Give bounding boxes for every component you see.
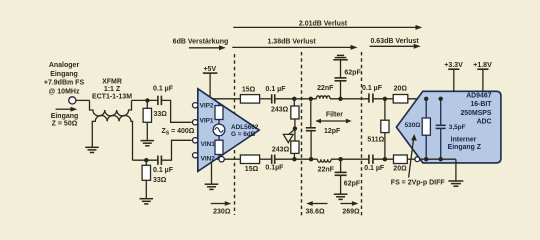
pin VIP1 [193, 120, 198, 125]
svg-text:Z = 50Ω: Z = 50Ω [52, 121, 78, 128]
svg-text:38.6Ω: 38.6Ω [305, 208, 325, 215]
annotation arrow 0.63dB Verlust [370, 38, 421, 49]
svg-text:0.1 µF: 0.1 µF [153, 167, 174, 174]
input terminal circle [69, 97, 76, 104]
node bottom branch junction [144, 158, 148, 162]
svg-text:22nF: 22nF [318, 166, 335, 173]
resistor R9 20 Ohm bottom [394, 155, 408, 164]
inductor L1 22nF top [316, 85, 334, 99]
node 243 top [292, 97, 296, 101]
wire C2 to VIN1 [161, 140, 191, 160]
label Interner Eingang Z [448, 136, 482, 151]
capacitor C8 0.1uF top right [362, 85, 383, 103]
svg-text:VIP1: VIP1 [200, 117, 214, 124]
capacitor C9 0.1uF bottom right [364, 155, 385, 173]
node 511 top [383, 97, 387, 101]
svg-text:VIN2: VIN2 [201, 156, 216, 163]
dashed boundary line 1 [234, 54, 236, 215]
capacitor C1 0.1uF top input [153, 85, 174, 105]
wire R1 to ground [146, 122, 148, 140]
wire R2 to ground [145, 180, 147, 198]
node 62pF bottom [338, 157, 342, 161]
svg-text:0.1 µF: 0.1 µF [266, 86, 287, 93]
wire U1 bottom output stub [216, 158, 219, 160]
inverted ground above C6 [333, 55, 348, 59]
wire stem to resistor R1 [146, 100, 148, 108]
transformer T1 label XFMR 1:1 Z ECT1-1-13M [92, 79, 132, 101]
U1 bottom output pin circle [219, 157, 224, 162]
svg-text:ZS = 400Ω: ZS = 400Ω [162, 128, 195, 136]
wire bottom rail inside ADC [420, 158, 456, 160]
svg-text:20Ω: 20Ω [394, 86, 408, 93]
svg-text:AD9467: AD9467 [466, 92, 491, 99]
svg-text:0.1µF: 0.1µF [265, 164, 284, 171]
annotation arrow 6dB Verstaerkung [173, 39, 229, 51]
wire R4 to C4 [260, 158, 272, 160]
node ADC top rail 3.5pF [439, 97, 443, 101]
ADC input pin bottom circle [415, 157, 420, 162]
svg-text:VIN1: VIN1 [201, 141, 216, 148]
svg-text:12pF: 12pF [324, 128, 341, 135]
svg-text:33Ω: 33Ω [154, 111, 168, 118]
resistor R8 20 Ohm top [393, 95, 408, 104]
wire R8 into ADC [408, 98, 441, 100]
svg-text:243Ω: 243Ω [271, 106, 289, 113]
svg-text:62pF: 62pF [344, 70, 361, 77]
svg-text:ADC: ADC [477, 118, 492, 125]
annotation arrow 2.01dB Verlust [233, 20, 422, 30]
wire C9 to R9 [373, 158, 394, 160]
svg-text:15Ω: 15Ω [245, 166, 259, 173]
svg-text:ECT1-1-13M: ECT1-1-13M [92, 94, 132, 101]
label Eingang Z = 50 Ohm [51, 113, 79, 128]
wire stem to resistor R2 [145, 160, 147, 165]
capacitor C6 62pF top to inverted ground [335, 60, 362, 99]
svg-text:530Ω: 530Ω [405, 122, 421, 129]
ground below R1 [141, 141, 155, 146]
node 12pF bottom [309, 157, 313, 161]
capacitor C7 62pF bottom to ground [335, 159, 361, 194]
dimension arrow 230 Ohm [211, 201, 232, 215]
svg-text:G = 6dB: G = 6dB [231, 131, 256, 138]
dashed boundary line 2 [301, 52, 303, 216]
svg-text:VIP2: VIP2 [200, 103, 214, 110]
wire C8 to R8 [373, 98, 393, 100]
resistor R3 15 Ohm top [240, 95, 259, 104]
svg-text:ADL5662: ADL5662 [231, 124, 259, 131]
ground below transformer secondary [85, 147, 99, 152]
svg-text:Eingang: Eingang [50, 71, 78, 78]
transformer T1 primary winding [90, 100, 132, 116]
svg-text:+3.3V: +3.3V [444, 62, 463, 69]
wire L1 to C8 [330, 98, 369, 100]
wire C1 to VIP1 [161, 100, 191, 122]
wire C3 to L1 [275, 98, 317, 100]
svg-text:Eingang: Eingang [51, 113, 79, 120]
resistor R2 33 Ohm shunt bottom [142, 165, 150, 180]
op-amp U1 ADL5662 body [198, 89, 259, 172]
svg-text:2.01dB Verlust: 2.01dB Verlust [299, 20, 348, 27]
svg-text:XFMR: XFMR [102, 79, 122, 86]
Filter label with double arrow [315, 112, 351, 124]
svg-text:0.1 µF: 0.1 µF [362, 85, 383, 92]
capacitor C4 0.1uF bottom [265, 155, 284, 172]
label AD9467 16-BIT 250MSPS ADC [460, 92, 492, 125]
ground below ADC [448, 181, 463, 186]
svg-text:Filter: Filter [326, 112, 343, 119]
resistor R4 15 Ohm bottom [240, 155, 259, 164]
svg-text:250MSPS: 250MSPS [460, 110, 491, 117]
ground below C7 [334, 194, 348, 199]
node ADC bottom rail 530 [424, 157, 428, 161]
wire L2 to C9 [331, 158, 369, 160]
svg-text:Eingang Z: Eingang Z [448, 144, 482, 151]
svg-text:6dB Verstärkung: 6dB Verstärkung [173, 39, 229, 46]
wire to R4 [224, 158, 240, 160]
input direction arrow [56, 107, 78, 112]
svg-text:0.1 µF: 0.1 µF [153, 85, 174, 92]
svg-text:FS = 2Vp-p DIFF: FS = 2Vp-p DIFF [391, 179, 446, 186]
node between R5 and R6 [293, 126, 297, 130]
svg-text:+7.9dBm FS: +7.9dBm FS [44, 80, 85, 87]
dimension arrow 38.6 Ohm [305, 201, 327, 215]
pin VIN2 [193, 153, 198, 158]
internal resistor top of U1 [215, 103, 223, 124]
capacitor C2 0.1uF bottom input [158, 156, 162, 165]
node ADC top rail 530 [424, 97, 428, 101]
svg-text:33Ω: 33Ω [153, 177, 167, 184]
FS arrow [391, 134, 446, 186]
dashed boundary line 3 [361, 52, 363, 216]
pin VIP2 [193, 103, 198, 108]
svg-text:@ 10MHz: @ 10MHz [49, 89, 80, 96]
input label Analoger Eingang +7.9dBm FS @ 10MHz [44, 62, 85, 96]
node 62pF top [338, 97, 342, 101]
svg-text:20Ω: 20Ω [393, 166, 407, 173]
svg-text:62pF: 62pF [344, 181, 361, 188]
svg-text:+5V: +5V [203, 66, 216, 73]
capacitor C3 0.1uF top [266, 86, 287, 104]
wire C4 to L2 [275, 158, 318, 160]
internal resistor 530 Ohm [405, 99, 431, 159]
pin VIN1 [193, 138, 198, 143]
supply +3.3V [444, 62, 463, 91]
svg-text:3,5pF: 3,5pF [449, 124, 466, 131]
svg-text:243Ω: 243Ω [272, 146, 290, 153]
node 12pF top [309, 97, 313, 101]
internal AC source of U1 [213, 124, 225, 136]
wire R3 to C3 [260, 98, 272, 100]
ground below R2 [140, 199, 154, 204]
resistor R5 243 Ohm top [271, 99, 299, 141]
svg-text:Analoger: Analoger [49, 62, 80, 69]
internal capacitor 3,5pF [436, 99, 466, 159]
inductor L2 22nF bottom [318, 159, 335, 173]
svg-text:0.1 µF: 0.1 µF [364, 165, 385, 172]
svg-text:0.63dB Verlust: 0.63dB Verlust [370, 38, 419, 45]
svg-text:16-BIT: 16-BIT [470, 101, 492, 108]
svg-text:+1.8V: +1.8V [473, 62, 492, 69]
svg-text:22nF: 22nF [317, 85, 334, 92]
supply +5V [203, 66, 218, 97]
wire top rail after transformer [132, 99, 158, 101]
wire R9 to ADC pin [407, 158, 415, 160]
svg-text:511Ω: 511Ω [367, 137, 384, 144]
common-mode open triangle [283, 134, 293, 142]
wire U1 top output [213, 98, 241, 100]
resistor R7 511 Ohm differential [367, 99, 389, 159]
node ADC bottom rail 3.5pF [439, 157, 443, 161]
svg-text:269Ω: 269Ω [342, 208, 360, 215]
svg-text:1:1 Z: 1:1 Z [104, 86, 121, 93]
svg-text:230Ω: 230Ω [213, 208, 231, 215]
node 243 bottom [292, 157, 296, 161]
dimension arrow 269 Ohm [340, 201, 360, 215]
resistor R6 243 Ohm bottom [272, 141, 299, 159]
wire input to transformer [76, 99, 90, 101]
transformer T1 secondary winding [92, 115, 132, 160]
svg-text:15Ω: 15Ω [242, 87, 256, 94]
internal resistor bottom of U1 [215, 136, 223, 158]
node 511 bottom [383, 157, 387, 161]
svg-text:Interner: Interner [451, 136, 477, 143]
annotation arrow 1.38dB Verlust [232, 38, 357, 50]
ground below U1 [205, 162, 219, 189]
supply +1.8V [473, 62, 492, 91]
ADC U2 AD9467 body [396, 91, 501, 163]
wire stub to common triangle [289, 129, 295, 134]
svg-text:1.38dB Verlust: 1.38dB Verlust [267, 38, 316, 45]
resistor R1 33 Ohm shunt top [143, 108, 151, 122]
capacitor C5 12pF differential [306, 99, 341, 159]
wire bottom branch after transformer [133, 159, 158, 161]
node top rail junction [145, 98, 149, 102]
wire ADC to ground [455, 159, 457, 181]
